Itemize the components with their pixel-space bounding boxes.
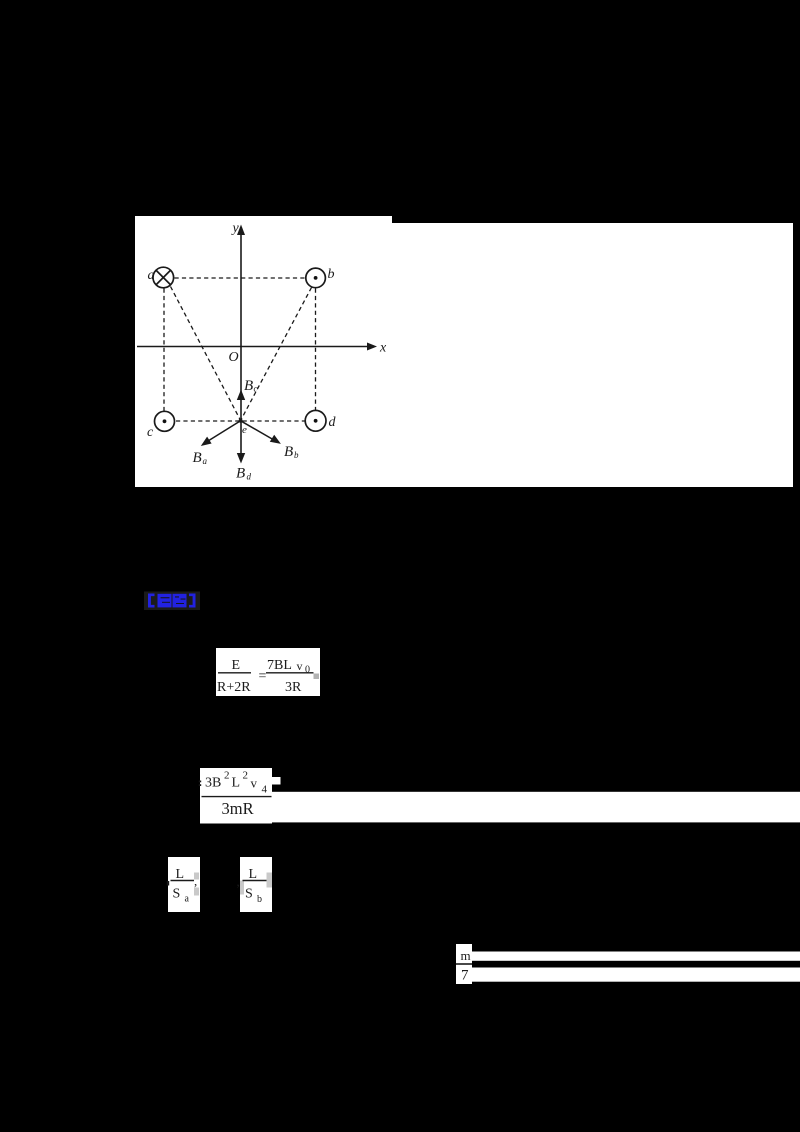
svg-text:3R: 3R: [285, 680, 302, 695]
svg-text:B: B: [236, 466, 245, 482]
svg-text:3mR: 3mR: [222, 799, 254, 818]
svg-text:S: S: [245, 887, 253, 902]
svg-text:v: v: [251, 776, 258, 791]
svg-text:a: a: [148, 268, 155, 283]
svg-text:b: b: [328, 267, 335, 282]
svg-text:a: a: [185, 894, 190, 905]
svg-text:e: e: [242, 424, 247, 436]
svg-text:c: c: [254, 384, 258, 394]
svg-text:0: 0: [305, 665, 310, 676]
svg-text:S: S: [173, 887, 181, 902]
svg-text:,: ,: [194, 874, 197, 889]
svg-text:x: x: [379, 341, 387, 356]
svg-text:3B: 3B: [205, 776, 221, 791]
svg-text:O: O: [229, 350, 239, 365]
svg-text:a: a: [203, 456, 208, 466]
svg-text:B: B: [244, 378, 253, 394]
svg-text:R+2R: R+2R: [217, 680, 251, 695]
svg-text:m: m: [461, 948, 471, 963]
svg-text:L: L: [176, 867, 185, 882]
svg-text:B: B: [284, 444, 293, 460]
svg-text:y: y: [231, 221, 240, 236]
svg-text:v: v: [297, 659, 303, 673]
svg-text:b: b: [257, 894, 262, 905]
svg-text:L: L: [232, 776, 241, 791]
svg-text:L: L: [249, 867, 258, 882]
svg-text:=: =: [259, 669, 267, 684]
svg-text:B: B: [193, 450, 202, 466]
svg-text:E: E: [232, 658, 241, 673]
svg-text:d: d: [247, 472, 252, 482]
svg-text:,: ,: [237, 874, 240, 889]
svg-text:d: d: [329, 415, 337, 430]
svg-text:2: 2: [243, 770, 249, 782]
svg-text:b: b: [294, 450, 299, 460]
svg-text:2: 2: [224, 770, 230, 782]
svg-text:c: c: [147, 425, 154, 440]
svg-text:4: 4: [262, 784, 268, 796]
svg-text:7: 7: [461, 968, 469, 984]
svg-text:7BL: 7BL: [267, 658, 292, 673]
